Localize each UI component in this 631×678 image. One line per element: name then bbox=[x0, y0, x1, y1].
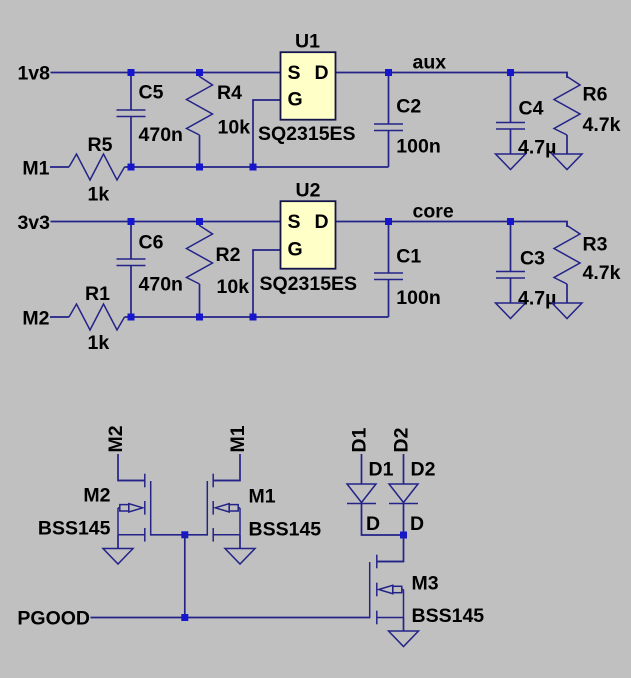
svg-text:G: G bbox=[288, 239, 303, 261]
transistor M2 bbox=[118, 474, 151, 542]
wire R2 bottom lead bbox=[199, 284, 201, 317]
wire bottom net bbox=[125, 166, 389, 168]
wire PGOOD bbox=[91, 617, 370, 619]
wire M2 lead bbox=[50, 316, 69, 318]
svg-text:M2: M2 bbox=[83, 485, 110, 507]
resistor R4 bbox=[187, 73, 213, 136]
wire C5 bottom lead bbox=[130, 117, 132, 168]
junction bbox=[250, 164, 257, 171]
svg-text:R4: R4 bbox=[217, 82, 242, 104]
wire M1 lead bbox=[50, 166, 69, 168]
wire M1 drain bbox=[214, 454, 240, 481]
wire C2 bottom lead bbox=[388, 131, 390, 168]
svg-text:U1: U1 bbox=[295, 31, 320, 53]
svg-text:SQ2315ES: SQ2315ES bbox=[258, 123, 356, 145]
svg-text:D1: D1 bbox=[349, 427, 371, 452]
svg-text:S: S bbox=[288, 62, 301, 84]
junction bbox=[196, 314, 203, 321]
junction bbox=[128, 218, 135, 225]
svg-text:100n: 100n bbox=[396, 287, 440, 309]
svg-text:R6: R6 bbox=[583, 84, 608, 106]
svg-text:M1: M1 bbox=[227, 425, 249, 452]
wire M2 source to ground bbox=[117, 535, 119, 549]
wire gate net bbox=[253, 250, 281, 317]
diode D1 bbox=[347, 484, 376, 504]
wire M2 drain bbox=[118, 454, 144, 481]
svg-text:S: S bbox=[288, 211, 301, 233]
wire output net bbox=[336, 73, 567, 79]
svg-text:SQ2315ES: SQ2315ES bbox=[260, 273, 358, 295]
wire M3 source to ground bbox=[403, 618, 405, 632]
wire R4 bottom lead bbox=[199, 135, 201, 167]
wire C6 bottom lead bbox=[130, 266, 132, 318]
junction bbox=[128, 69, 135, 76]
wire R3 bottom lead bbox=[566, 284, 568, 303]
capacitor C6 bbox=[117, 259, 146, 266]
wire M1 source to ground bbox=[239, 535, 241, 549]
svg-text:D1: D1 bbox=[369, 459, 394, 481]
svg-text:M1: M1 bbox=[22, 157, 49, 179]
diode D2 bbox=[389, 484, 418, 504]
junction bbox=[507, 69, 514, 76]
wire D2 anode bbox=[403, 454, 405, 484]
svg-text:G: G bbox=[288, 89, 303, 111]
svg-text:C4: C4 bbox=[519, 98, 544, 120]
wire D1 anode bbox=[361, 454, 363, 484]
junction (diode cathodes / M3 drain) bbox=[400, 532, 407, 539]
junction PGOOD bbox=[181, 614, 188, 621]
resistor R2 bbox=[187, 222, 213, 285]
svg-text:BSS145: BSS145 bbox=[38, 518, 111, 540]
capacitor C3 bbox=[496, 272, 525, 279]
svg-text:10k: 10k bbox=[218, 117, 251, 139]
wire D1 cathode bbox=[362, 504, 404, 536]
junction bbox=[196, 69, 203, 76]
resistor R6 bbox=[554, 73, 580, 136]
svg-text:C6: C6 bbox=[139, 231, 164, 253]
svg-text:4.7k: 4.7k bbox=[583, 262, 621, 284]
ground (C4) bbox=[496, 154, 526, 170]
svg-text:C3: C3 bbox=[520, 248, 545, 270]
svg-text:C2: C2 bbox=[396, 96, 421, 118]
svg-text:1v8: 1v8 bbox=[17, 62, 50, 84]
wire 3v3 rail bbox=[51, 221, 281, 223]
wire C2 top lead bbox=[388, 73, 390, 125]
svg-text:1k: 1k bbox=[88, 332, 110, 354]
svg-text:C5: C5 bbox=[139, 82, 164, 104]
svg-text:D2: D2 bbox=[411, 459, 436, 481]
resistor R1 bbox=[69, 304, 125, 330]
box U2 SQ2315ES P-MOSFET bbox=[281, 201, 336, 269]
ground (M3 source) bbox=[389, 631, 419, 647]
wire gate node down bbox=[184, 535, 186, 618]
svg-text:3v3: 3v3 bbox=[17, 212, 50, 234]
svg-text:R2: R2 bbox=[216, 244, 241, 266]
svg-text:BSS145: BSS145 bbox=[412, 605, 485, 627]
svg-text:D: D bbox=[410, 513, 424, 535]
wire C1 bottom lead bbox=[388, 280, 390, 318]
wire 1v8 rail bbox=[51, 72, 281, 74]
svg-text:D: D bbox=[315, 211, 329, 233]
svg-text:R3: R3 bbox=[583, 234, 608, 256]
wire output net bbox=[336, 222, 567, 228]
ground (R3) bbox=[552, 303, 582, 319]
svg-text:4.7µ: 4.7µ bbox=[518, 288, 556, 310]
wire bottom net bbox=[125, 316, 389, 318]
svg-text:U2: U2 bbox=[296, 180, 321, 202]
capacitor C4 bbox=[496, 123, 525, 130]
transistor M1 bbox=[207, 474, 240, 542]
wire C1 top lead bbox=[388, 222, 390, 274]
wire C6 top lead bbox=[130, 222, 132, 260]
junction bbox=[250, 314, 257, 321]
wire C4 bottom lead bbox=[510, 129, 512, 154]
wire D2 cathode bbox=[403, 504, 405, 536]
junction bbox=[507, 218, 514, 225]
svg-text:470n: 470n bbox=[139, 273, 183, 295]
svg-text:1k: 1k bbox=[88, 184, 110, 206]
junction bbox=[385, 69, 392, 76]
junction (gate node) bbox=[181, 531, 188, 538]
svg-text:M2: M2 bbox=[105, 425, 127, 452]
svg-text:D: D bbox=[366, 513, 380, 535]
junction bbox=[128, 164, 135, 171]
svg-text:aux: aux bbox=[413, 52, 447, 74]
svg-text:M2: M2 bbox=[22, 307, 49, 329]
wire M1 gate lead bbox=[185, 534, 208, 536]
resistor R5 bbox=[69, 154, 125, 180]
capacitor C5 bbox=[117, 110, 146, 117]
capacitor C1 bbox=[374, 273, 403, 280]
wire M2 gate lead bbox=[151, 534, 185, 536]
ground (M1 source) bbox=[225, 549, 255, 565]
junction bbox=[196, 218, 203, 225]
wire gate net bbox=[253, 100, 281, 167]
wire C3 bottom lead bbox=[510, 278, 512, 303]
svg-text:C1: C1 bbox=[396, 246, 421, 268]
wire C4 top lead bbox=[510, 73, 512, 123]
svg-text:D2: D2 bbox=[391, 427, 413, 452]
transistor M3 bbox=[370, 555, 404, 625]
svg-text:4.7k: 4.7k bbox=[583, 114, 621, 136]
svg-text:core: core bbox=[413, 201, 454, 223]
svg-text:R1: R1 bbox=[85, 283, 110, 305]
svg-text:4.7µ: 4.7µ bbox=[518, 137, 556, 159]
junction bbox=[385, 218, 392, 225]
ground (C3) bbox=[496, 303, 526, 319]
resistor R3 bbox=[554, 222, 580, 285]
svg-text:10k: 10k bbox=[217, 276, 250, 298]
svg-text:M1: M1 bbox=[249, 486, 276, 508]
wire C3 top lead bbox=[510, 222, 512, 272]
svg-text:R5: R5 bbox=[88, 134, 113, 156]
ground (R6) bbox=[552, 154, 582, 170]
wire C5 top lead bbox=[130, 73, 132, 111]
svg-text:PGOOD: PGOOD bbox=[17, 608, 90, 630]
box U1 SQ2315ES P-MOSFET bbox=[281, 52, 336, 120]
ground (M2 source) bbox=[103, 549, 133, 565]
junction bbox=[196, 164, 203, 171]
svg-text:D: D bbox=[315, 62, 329, 84]
svg-text:470n: 470n bbox=[139, 124, 183, 146]
wire R6 bottom lead bbox=[566, 135, 568, 154]
svg-text:100n: 100n bbox=[396, 136, 440, 158]
wire M3 drain bbox=[378, 535, 404, 562]
svg-text:M3: M3 bbox=[412, 573, 439, 595]
junction bbox=[128, 314, 135, 321]
svg-text:BSS145: BSS145 bbox=[249, 519, 322, 541]
capacitor C2 bbox=[374, 124, 403, 131]
